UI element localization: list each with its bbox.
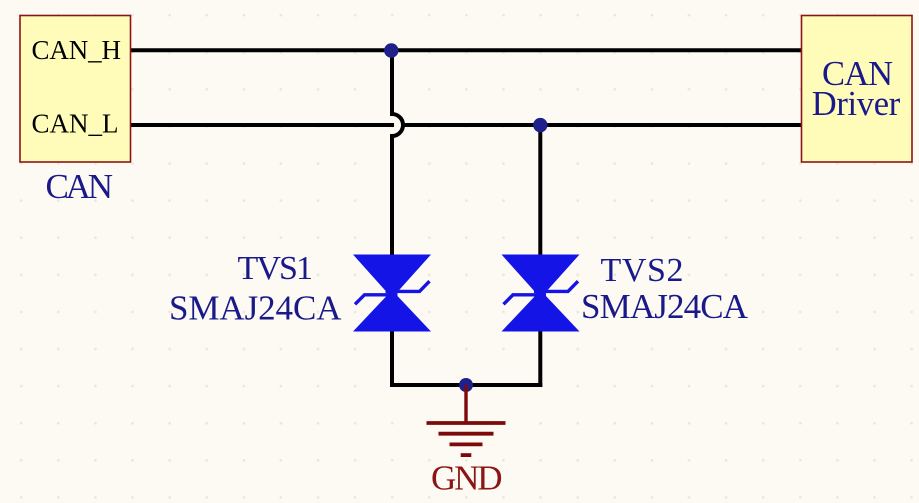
svg-text:CAN_L: CAN_L	[32, 109, 119, 139]
label CAN Driver (2 lines)	[812, 55, 901, 123]
ground symbol GND	[427, 385, 506, 455]
wire from CAN_H junction down to TVS1 (with hop over CAN_L)	[392, 50, 403, 256]
svg-text:SMAJ24CA: SMAJ24CA	[581, 287, 749, 326]
connector CAN box body	[20, 16, 131, 163]
junction on CAN_L at TVS2 tap	[533, 118, 547, 132]
junction on CAN_H at TVS1 tap	[384, 43, 398, 57]
wire from CAN_L junction down to TVS2	[538, 125, 542, 256]
junction on ground bus at GND tap	[459, 378, 473, 392]
CAN Driver box body	[802, 16, 913, 163]
svg-text:Driver: Driver	[812, 85, 901, 123]
svg-text:TVS2: TVS2	[601, 252, 684, 289]
TVS2 bidirectional TVS diode symbol	[502, 255, 580, 332]
wire ground bus	[390, 383, 542, 387]
svg-text:CAN: CAN	[46, 167, 114, 206]
wire TVS1 anode to ground bus	[390, 330, 394, 387]
svg-text:GND: GND	[431, 459, 503, 498]
svg-text:SMAJ24CA: SMAJ24CA	[169, 288, 342, 327]
svg-text:CAN_H: CAN_H	[32, 35, 122, 65]
wire CAN_H net	[131, 48, 802, 52]
wire TVS2 anode to ground bus	[538, 330, 542, 387]
svg-text:TVS1: TVS1	[238, 250, 314, 287]
wire CAN_L net (right segment, resumes after hop)	[405, 123, 802, 127]
wire CAN_L net (left segment, ends at hop)	[131, 123, 395, 127]
TVS1 bidirectional TVS diode symbol	[353, 255, 431, 332]
